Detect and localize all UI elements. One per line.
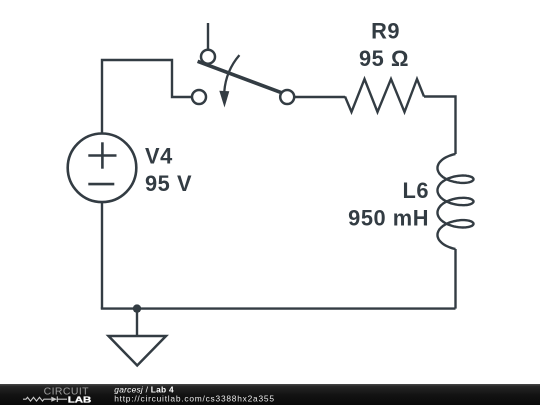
svg-text:V4: V4: [145, 143, 173, 168]
junction node: [133, 304, 141, 312]
resistor R9: [345, 79, 424, 112]
footer logo CIRCUIT: [44, 386, 90, 398]
wire bottom rail: [101, 307, 456, 309]
switch SW blade: [198, 61, 287, 94]
wire inductor bottom: [454, 249, 456, 309]
switch SW pole stub: [207, 23, 209, 50]
wire switch to resistor: [294, 96, 345, 98]
voltage source V4: [68, 134, 137, 203]
switch SW terminal upper: [201, 50, 215, 64]
wire resistor to inductor top: [424, 97, 456, 155]
footer logo squiggle resistor+diode: [23, 396, 67, 402]
wire V4 bottom: [101, 202, 103, 309]
footer logo LAB: [68, 394, 92, 404]
label R9 name: [359, 19, 409, 71]
switch SW throw arrow: [219, 55, 239, 107]
ground: [109, 309, 167, 366]
svg-text:95 Ω: 95 Ω: [359, 46, 409, 71]
svg-text:95 V: 95 V: [145, 171, 192, 196]
switch SW terminal lower-left: [192, 90, 206, 104]
svg-text:LAB: LAB: [68, 394, 92, 404]
switch SW terminal right: [280, 90, 294, 104]
label V4 name: [145, 143, 192, 196]
inductor L6: [438, 154, 474, 249]
svg-text:R9: R9: [371, 19, 400, 44]
footer title garcesj Lab 4: [114, 385, 275, 404]
wire V4 top to switch pole: [102, 60, 192, 134]
svg-text:950 mH: 950 mH: [348, 206, 429, 231]
label L6 name: [348, 178, 429, 230]
svg-text:http://circuitlab.com/cs3388hx: http://circuitlab.com/cs3388hx2a355: [114, 394, 275, 404]
footer bar: [0, 384, 540, 405]
svg-text:L6: L6: [402, 178, 429, 203]
